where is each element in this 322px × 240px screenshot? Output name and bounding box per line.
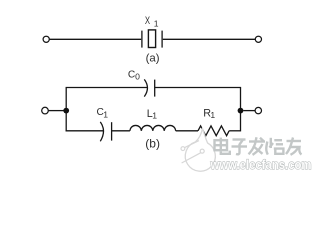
wire right vertical (240, 88, 242, 132)
char you (286, 138, 302, 155)
watermark logo elecfans (181, 128, 215, 171)
terminal T1 left of circuit (a) (43, 36, 49, 42)
label R1 (203, 107, 215, 120)
svg-text:1: 1 (154, 18, 159, 28)
inductor L1 (130, 125, 176, 130)
char dian (215, 138, 230, 154)
wire C1 to inductor L1 (112, 130, 130, 132)
svg-text:1: 1 (210, 110, 215, 120)
wire node N2 to T4 (243, 110, 255, 112)
terminal T2 right of circuit (a) (255, 36, 261, 42)
capacitor C1 (100, 122, 111, 141)
wire from crystal X1 to T2 (163, 38, 256, 40)
wire top branch C0 to right vertical (155, 87, 241, 89)
svg-text:www.elecfans.com: www.elecfans.com (210, 158, 312, 172)
capacitor C0 (144, 79, 154, 96)
wire left vertical at node N1 (65, 88, 67, 132)
node N2 junction dot (238, 108, 244, 114)
label C1 (97, 107, 109, 119)
watermark url www.elecfans.com (210, 158, 312, 172)
char zi (232, 140, 248, 155)
svg-text:1: 1 (103, 110, 108, 120)
node N1 junction dot (63, 108, 69, 114)
svg-text:X: X (145, 15, 150, 27)
wire from T3 to node N1 (49, 110, 64, 112)
wire top branch left to C0 (66, 87, 148, 89)
terminal T3 left of circuit (b) (42, 107, 49, 114)
wire R1 to right vertical (229, 130, 240, 132)
svg-text:0: 0 (135, 72, 140, 82)
wire bottom branch left to C1 (66, 130, 104, 132)
wire L1 to resistor R1 (176, 130, 198, 132)
svg-text:(a): (a) (146, 53, 160, 65)
crystal X1 (142, 30, 162, 48)
label X1 (145, 15, 159, 29)
svg-text:1: 1 (152, 111, 157, 121)
char fa (249, 137, 266, 155)
label C0 (128, 69, 140, 81)
watermark text 电子发烧友 (drawn strokes) (215, 137, 302, 155)
char shao (266, 138, 283, 155)
wire from T1 to crystal X1 (50, 38, 142, 40)
label L1 (147, 108, 158, 121)
terminal T4 right of circuit (b) (255, 107, 261, 113)
resistor R1 (198, 126, 229, 136)
svg-text:(b): (b) (145, 136, 160, 150)
